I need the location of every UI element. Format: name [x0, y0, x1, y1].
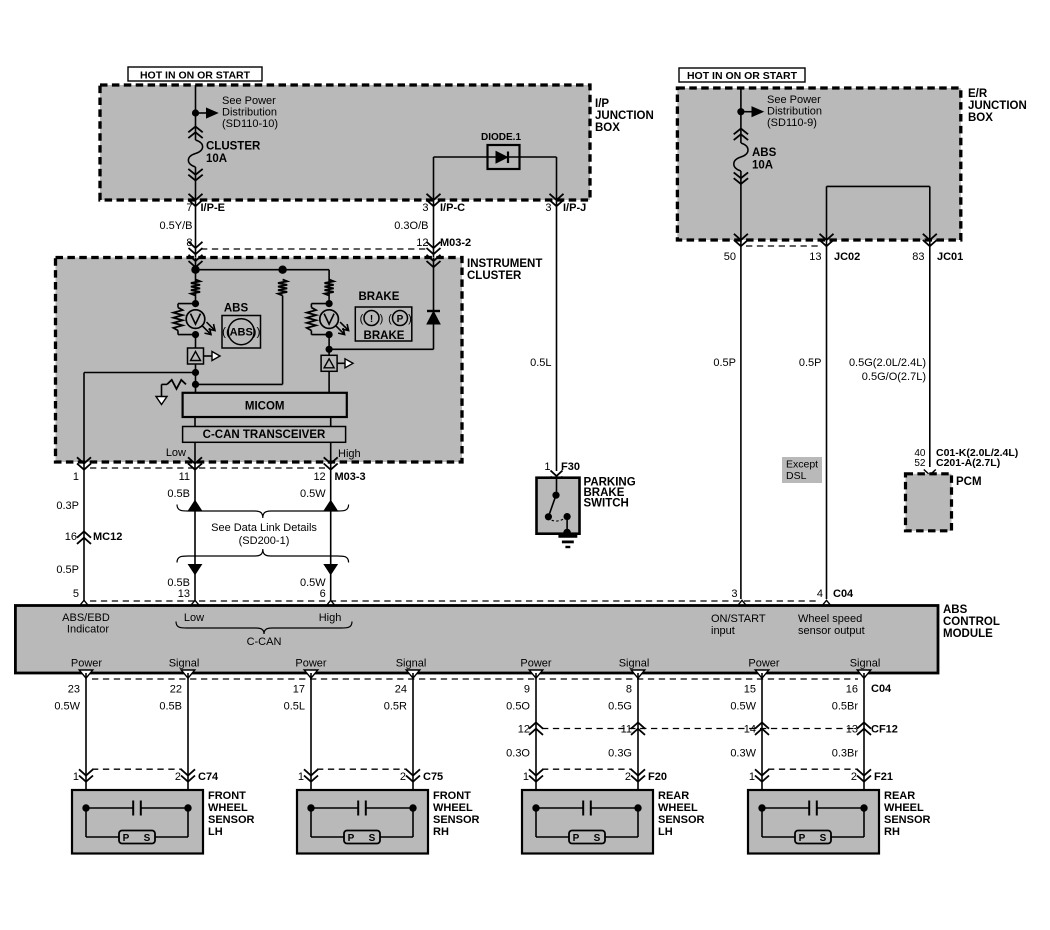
svg-text:12: 12 [313, 471, 325, 483]
svg-text:0.5Y/B: 0.5Y/B [159, 220, 192, 232]
svg-text:Except: Except [786, 459, 818, 471]
svg-text:C-CAN TRANSCEIVER: C-CAN TRANSCEIVER [203, 429, 326, 441]
svg-text:0.5P: 0.5P [56, 564, 79, 576]
svg-text:2: 2 [625, 771, 631, 783]
svg-text:Power: Power [748, 658, 780, 670]
svg-text:0.5P: 0.5P [713, 357, 736, 369]
svg-text:C201-A(2.7L): C201-A(2.7L) [936, 457, 1000, 469]
svg-text:0.5W: 0.5W [730, 701, 756, 713]
svg-text:S: S [144, 833, 151, 844]
svg-text:14: 14 [744, 724, 756, 736]
svg-text:RH: RH [433, 826, 449, 838]
svg-text:4: 4 [817, 588, 823, 600]
svg-text:ABS: ABS [224, 303, 249, 315]
svg-text:PCM: PCM [956, 476, 982, 488]
svg-text:DIODE.1: DIODE.1 [481, 132, 521, 143]
svg-text:1: 1 [523, 771, 529, 783]
svg-text:Signal: Signal [850, 658, 881, 670]
svg-text:): ) [380, 313, 384, 325]
svg-text:3: 3 [545, 202, 551, 214]
svg-text:I/P-J: I/P-J [563, 202, 586, 214]
svg-text:13: 13 [846, 724, 858, 736]
svg-text:C04: C04 [833, 588, 854, 600]
svg-text:(SD110-10): (SD110-10) [222, 118, 278, 130]
svg-text:10A: 10A [752, 160, 773, 172]
svg-text:9: 9 [524, 684, 530, 696]
svg-text:0.5G/O(2.7L): 0.5G/O(2.7L) [862, 371, 926, 383]
svg-text:P: P [348, 833, 355, 844]
svg-text:F21: F21 [874, 771, 893, 783]
svg-text:5: 5 [73, 588, 79, 600]
svg-text:WHEEL: WHEEL [433, 802, 473, 814]
svg-text:ABS: ABS [230, 327, 253, 339]
svg-text:CF12: CF12 [871, 724, 898, 736]
svg-text:0.5G: 0.5G [608, 701, 632, 713]
svg-text:(: ( [226, 325, 230, 339]
svg-text:C04: C04 [871, 683, 892, 695]
svg-text:!: ! [370, 314, 373, 325]
svg-text:I/P-E: I/P-E [201, 202, 225, 214]
svg-text:0.5R: 0.5R [384, 701, 407, 713]
svg-text:BRAKE: BRAKE [359, 291, 400, 303]
svg-text:JC01: JC01 [937, 251, 963, 263]
svg-text:0.5L: 0.5L [284, 701, 305, 713]
svg-text:23: 23 [68, 684, 80, 696]
svg-text:2: 2 [175, 771, 181, 783]
svg-text:SENSOR: SENSOR [208, 814, 255, 826]
svg-text:I/P: I/P [595, 98, 609, 110]
svg-text:0.3P: 0.3P [56, 500, 79, 512]
svg-text:0.5P: 0.5P [799, 357, 822, 369]
svg-text:0.5W: 0.5W [300, 488, 326, 500]
svg-text:C74: C74 [198, 771, 219, 783]
svg-text:): ) [408, 313, 412, 325]
svg-text:0.3G: 0.3G [608, 748, 632, 760]
svg-text:JUNCTION: JUNCTION [968, 100, 1027, 112]
svg-text:6: 6 [320, 588, 326, 600]
svg-text:24: 24 [395, 684, 407, 696]
svg-text:F20: F20 [648, 771, 667, 783]
svg-text:sensor output: sensor output [798, 625, 865, 637]
svg-text:S: S [369, 833, 376, 844]
svg-text:13: 13 [809, 251, 821, 263]
svg-text:7: 7 [186, 202, 192, 214]
svg-text:3: 3 [422, 202, 428, 214]
svg-text:3: 3 [731, 588, 737, 600]
svg-text:SENSOR: SENSOR [884, 814, 931, 826]
svg-text:11: 11 [179, 471, 190, 483]
svg-text:S: S [594, 833, 601, 844]
svg-text:17: 17 [293, 684, 305, 696]
svg-text:0.3Br: 0.3Br [832, 748, 859, 760]
svg-text:SWITCH: SWITCH [584, 498, 629, 510]
svg-text:Power: Power [520, 658, 552, 670]
svg-text:0.5G(2.0L/2.4L): 0.5G(2.0L/2.4L) [849, 357, 926, 369]
svg-text:16: 16 [846, 684, 858, 696]
svg-text:P: P [397, 314, 404, 325]
svg-text:WHEEL: WHEEL [208, 802, 248, 814]
svg-text:52: 52 [914, 458, 926, 469]
svg-text:0.3O: 0.3O [506, 748, 530, 760]
svg-text:Distribution: Distribution [767, 106, 822, 118]
svg-text:I/P-C: I/P-C [440, 202, 465, 214]
svg-text:ABS: ABS [943, 604, 968, 616]
svg-text:1: 1 [544, 461, 550, 473]
svg-text:8: 8 [626, 684, 632, 696]
svg-text:12: 12 [518, 724, 530, 736]
svg-text:CLUSTER: CLUSTER [467, 270, 522, 282]
svg-text:Power: Power [295, 658, 327, 670]
svg-text:(: ( [360, 313, 364, 325]
svg-text:Power: Power [71, 658, 103, 670]
svg-text:12: 12 [416, 237, 428, 249]
svg-text:): ) [257, 325, 261, 339]
svg-text:Signal: Signal [396, 658, 427, 670]
svg-text:0.5Br: 0.5Br [832, 701, 859, 713]
svg-text:RH: RH [884, 826, 900, 838]
svg-text:LH: LH [658, 826, 673, 838]
svg-text:50: 50 [724, 251, 736, 263]
svg-text:Signal: Signal [619, 658, 650, 670]
svg-text:REAR: REAR [884, 790, 915, 802]
svg-text:(SD200-1): (SD200-1) [239, 535, 290, 547]
svg-text:(: ( [222, 325, 226, 339]
svg-text:See Data Link Details: See Data Link Details [211, 522, 317, 534]
svg-text:13: 13 [178, 588, 190, 600]
svg-text:See Power: See Power [767, 94, 821, 106]
svg-text:JC02: JC02 [834, 251, 860, 263]
svg-text:High: High [338, 448, 361, 460]
svg-text:(: ( [388, 313, 392, 325]
svg-text:MICOM: MICOM [245, 401, 285, 413]
svg-text:22: 22 [170, 684, 182, 696]
svg-text:MODULE: MODULE [943, 628, 993, 640]
svg-text:C75: C75 [423, 771, 443, 783]
svg-text:0.3W: 0.3W [730, 748, 756, 760]
svg-text:BOX: BOX [595, 122, 620, 134]
svg-text:Indicator: Indicator [67, 624, 110, 636]
svg-text:C-CAN: C-CAN [247, 636, 282, 648]
svg-text:M03-2: M03-2 [440, 237, 471, 249]
svg-text:ABS/EBD: ABS/EBD [62, 612, 110, 624]
svg-text:MC12: MC12 [93, 531, 122, 543]
svg-text:2: 2 [400, 771, 406, 783]
svg-text:Signal: Signal [169, 658, 200, 670]
svg-text:ON/START: ON/START [711, 613, 766, 625]
svg-text:JUNCTION: JUNCTION [595, 110, 654, 122]
svg-text:BRAKE: BRAKE [364, 330, 405, 342]
svg-text:1: 1 [73, 771, 79, 783]
svg-text:0.5O: 0.5O [506, 701, 530, 713]
svg-text:INSTRUMENT: INSTRUMENT [467, 258, 542, 270]
svg-text:Wheel speed: Wheel speed [798, 613, 862, 625]
svg-text:F30: F30 [561, 461, 580, 473]
svg-text:CLUSTER: CLUSTER [206, 141, 261, 153]
svg-text:M03-3: M03-3 [335, 471, 366, 483]
svg-text:2: 2 [851, 771, 857, 783]
svg-text:DSL: DSL [786, 470, 807, 482]
svg-text:P: P [123, 833, 130, 844]
svg-text:SENSOR: SENSOR [658, 814, 705, 826]
svg-text:FRONT: FRONT [208, 790, 246, 802]
svg-text:P: P [573, 833, 580, 844]
svg-text:BOX: BOX [968, 112, 993, 124]
svg-text:E/R: E/R [968, 88, 988, 100]
svg-text:SENSOR: SENSOR [433, 814, 480, 826]
svg-text:WHEEL: WHEEL [658, 802, 698, 814]
svg-text:REAR: REAR [658, 790, 689, 802]
svg-text:16: 16 [65, 531, 77, 543]
svg-text:WHEEL: WHEEL [884, 802, 924, 814]
svg-text:(SD110-9): (SD110-9) [767, 117, 817, 129]
svg-text:FRONT: FRONT [433, 790, 471, 802]
svg-text:0.5B: 0.5B [159, 701, 182, 713]
svg-text:Low: Low [184, 612, 204, 624]
svg-text:83: 83 [912, 251, 924, 263]
svg-text:0.5W: 0.5W [54, 701, 80, 713]
svg-text:See Power: See Power [222, 95, 276, 107]
svg-text:10A: 10A [206, 153, 227, 165]
svg-text:HOT IN ON OR START: HOT IN ON OR START [140, 70, 251, 82]
svg-text:1: 1 [73, 471, 79, 483]
svg-text:ABS: ABS [752, 147, 777, 159]
svg-text:input: input [711, 625, 735, 637]
svg-text:15: 15 [744, 684, 756, 696]
svg-text:P: P [799, 833, 806, 844]
svg-text:0.5B: 0.5B [167, 488, 190, 500]
svg-text:Low: Low [166, 447, 186, 459]
svg-text:HOT IN ON OR START: HOT IN ON OR START [687, 70, 798, 82]
svg-text:1: 1 [749, 771, 755, 783]
svg-text:0.5L: 0.5L [530, 357, 551, 369]
svg-text:Distribution: Distribution [222, 107, 277, 119]
svg-text:CONTROL: CONTROL [943, 616, 1000, 628]
svg-text:11: 11 [621, 724, 632, 736]
svg-text:0.3O/B: 0.3O/B [394, 220, 428, 232]
svg-text:LH: LH [208, 826, 223, 838]
svg-text:S: S [820, 833, 827, 844]
svg-text:High: High [319, 612, 342, 624]
svg-text:1: 1 [298, 771, 304, 783]
